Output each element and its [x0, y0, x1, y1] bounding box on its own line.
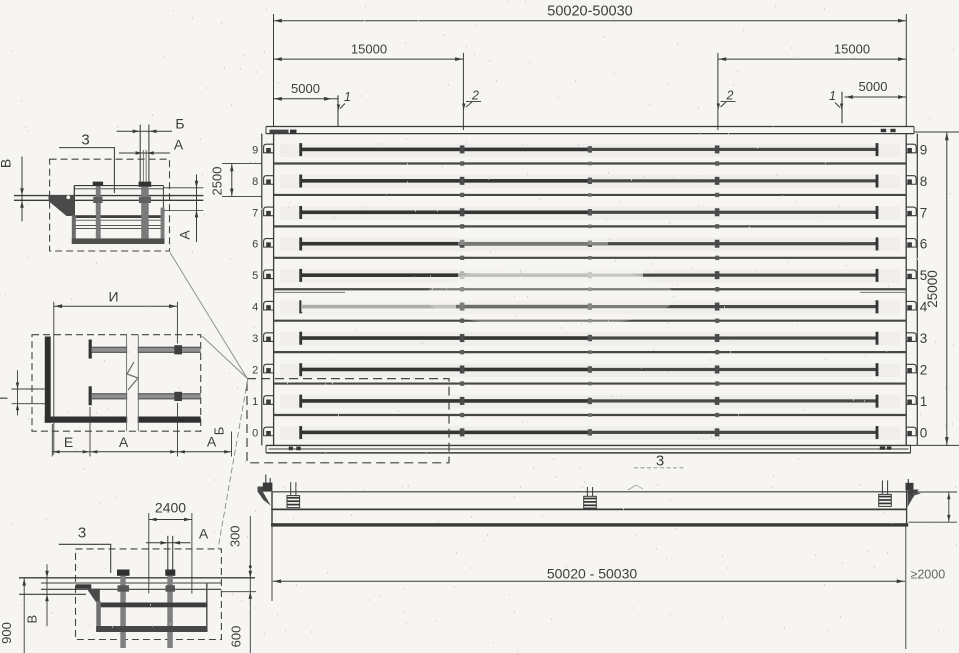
- svg-text:Б: Б: [175, 116, 184, 132]
- svg-text:9: 9: [252, 144, 258, 156]
- svg-text:6: 6: [920, 237, 928, 252]
- svg-text:Е: Е: [64, 434, 73, 450]
- svg-text:2: 2: [471, 89, 479, 103]
- svg-text:5: 5: [252, 270, 258, 282]
- svg-text:7: 7: [252, 207, 258, 219]
- svg-text:А: А: [119, 434, 129, 450]
- svg-text:8: 8: [252, 176, 258, 188]
- svg-text:900: 900: [0, 622, 14, 644]
- svg-text:2: 2: [252, 364, 258, 376]
- svg-text:1: 1: [252, 396, 258, 408]
- svg-text:50020 - 50030: 50020 - 50030: [547, 565, 638, 581]
- svg-text:2: 2: [726, 89, 734, 103]
- svg-text:3: 3: [78, 525, 86, 542]
- svg-text:А: А: [174, 137, 184, 153]
- svg-text:И: И: [108, 289, 118, 305]
- svg-text:15000: 15000: [351, 42, 387, 57]
- svg-text:5000: 5000: [859, 79, 888, 94]
- svg-text:600: 600: [228, 626, 243, 648]
- svg-text:5000: 5000: [291, 81, 320, 96]
- svg-text:3: 3: [81, 132, 89, 149]
- svg-text:7: 7: [920, 205, 928, 220]
- svg-text:3: 3: [656, 453, 664, 470]
- svg-text:0: 0: [920, 425, 928, 440]
- svg-text:Б: Б: [212, 427, 227, 436]
- svg-text:0: 0: [252, 427, 258, 439]
- svg-text:2500: 2500: [210, 167, 225, 196]
- svg-text:25000: 25000: [925, 270, 940, 308]
- svg-text:9: 9: [920, 142, 928, 157]
- svg-text:3: 3: [252, 333, 258, 345]
- svg-text:В: В: [24, 615, 39, 624]
- svg-text:1: 1: [920, 394, 928, 409]
- svg-text:А: А: [199, 526, 209, 542]
- svg-text:2: 2: [920, 362, 928, 377]
- svg-text:6: 6: [252, 239, 258, 251]
- svg-text:50020-50030: 50020-50030: [547, 4, 632, 20]
- svg-text:15000: 15000: [834, 42, 870, 57]
- svg-text:Г: Г: [0, 393, 11, 400]
- svg-text:В: В: [0, 159, 14, 168]
- svg-text:А: А: [177, 230, 193, 240]
- svg-text:1: 1: [829, 89, 836, 103]
- svg-text:300: 300: [227, 525, 242, 547]
- svg-text:1: 1: [344, 90, 351, 104]
- svg-text:2400: 2400: [155, 500, 186, 516]
- svg-text:3: 3: [920, 331, 928, 346]
- svg-text:≥2000: ≥2000: [911, 568, 946, 582]
- svg-text:8: 8: [920, 174, 928, 189]
- svg-text:4: 4: [252, 302, 258, 314]
